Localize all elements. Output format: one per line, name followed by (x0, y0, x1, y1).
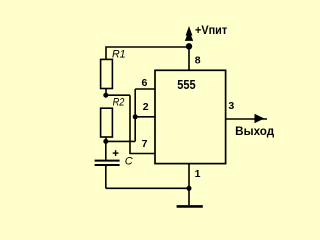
+Vpit power arrow (185, 26, 193, 41)
svg-text:C: C (125, 156, 133, 168)
node C junction dot on threshold line (133, 114, 138, 119)
wire capacitor bottom lead (105, 165, 107, 188)
wire bottom rail to ground node (106, 187, 189, 189)
svg-text:555: 555 (177, 77, 195, 92)
node B junction dot (103, 139, 108, 144)
wire node B down to capacitor (105, 141, 107, 160)
node D junction dot at ground rail (187, 186, 192, 191)
wire pin 8 from +V node (188, 46, 190, 70)
wire threshold vertical (134, 89, 136, 141)
node +V junction dot (186, 43, 192, 49)
node A junction dot (103, 93, 108, 98)
wire ground stem (188, 188, 190, 205)
op-amp U1 555 timer box (155, 70, 226, 163)
wire discharge vertical + pin 7 feed (130, 95, 155, 153)
capacitor plus sign (113, 150, 119, 156)
wire node A to discharge line (106, 94, 130, 96)
svg-text:+Vпит: +Vпит (195, 25, 228, 37)
svg-text:6: 6 (142, 77, 148, 89)
wire R1 bottom to node A (105, 89, 107, 96)
svg-text:2: 2 (143, 101, 149, 113)
wire top rail from R1 top to +V node (106, 47, 189, 59)
svg-text:7: 7 (142, 138, 148, 150)
wire pin 3 output (225, 118, 267, 120)
svg-text:R1: R1 (112, 49, 126, 61)
wire R2 bottom to node B (105, 137, 107, 141)
output arrow head (255, 114, 265, 124)
resistor R2 (101, 108, 113, 137)
svg-text:R2: R2 (113, 97, 125, 109)
capacitor C plates (95, 161, 120, 165)
svg-text:1: 1 (195, 168, 201, 180)
wire pin 1 to ground node (188, 164, 190, 189)
resistor R1 (101, 59, 113, 88)
wire node B to threshold line (106, 140, 135, 142)
wire pin 6 feed (135, 88, 155, 90)
wire pin 2 feed (135, 116, 155, 118)
ground (177, 205, 203, 208)
svg-text:Выход: Выход (235, 126, 275, 138)
svg-text:8: 8 (195, 55, 201, 67)
svg-text:3: 3 (228, 100, 234, 112)
